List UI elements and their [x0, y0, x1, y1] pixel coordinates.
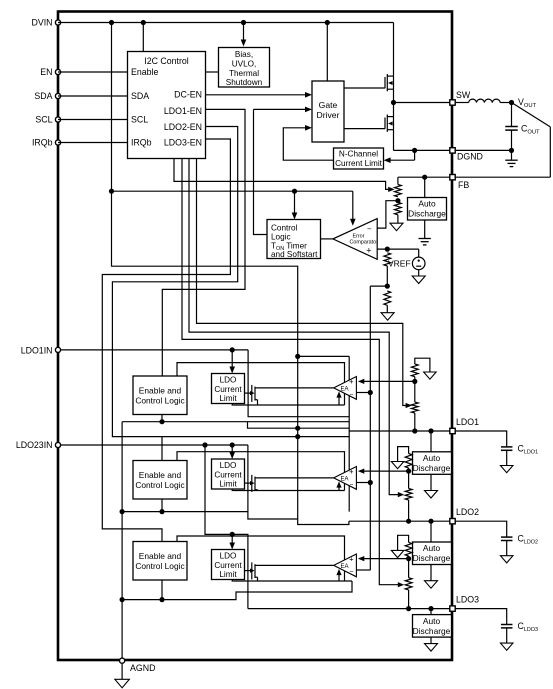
- op-amp EA3: [334, 554, 357, 577]
- inductor L1: [469, 99, 501, 102]
- wire FET2 source: [257, 489, 259, 492]
- transistor pass FET 2: [251, 475, 253, 492]
- pin EN: [55, 69, 60, 74]
- wire DVIN to Bias: [243, 23, 245, 42]
- svg-text:FB: FB: [458, 180, 469, 190]
- pin FB: [450, 175, 455, 180]
- wire DVIN to Gate Driver top: [326, 23, 328, 82]
- wire feedback right side: [549, 127, 551, 177]
- node divider mid LDO3: [406, 556, 411, 561]
- svg-text:DVIN: DVIN: [31, 18, 52, 28]
- node CL feed: [292, 189, 297, 194]
- ground CLDO2: [500, 556, 513, 563]
- wire EA2 enable arrow: [338, 486, 340, 490]
- pin DGND: [450, 148, 455, 153]
- svg-text:Gate: Gate: [319, 100, 338, 110]
- wire VREF distribution rail: [369, 286, 371, 570]
- svg-text:LDO1-EN: LDO1-EN: [164, 106, 202, 116]
- svg-text:Comparator: Comparator: [350, 240, 379, 246]
- op-amp EA1: [334, 377, 357, 400]
- svg-text:LDO3-EN: LDO3-EN: [164, 138, 202, 148]
- wire rail branch LDO2-EN ext: [162, 436, 349, 438]
- svg-text:Enable: Enable: [131, 67, 158, 77]
- wire LDO2 output row: [349, 520, 453, 522]
- wire IRQb: [58, 142, 128, 144]
- wire LDO3-EN: [102, 139, 230, 542]
- wire FB internal: [398, 176, 450, 178]
- wire current limit sense: [414, 150, 416, 160]
- wire Enable to Bias: [206, 71, 219, 73]
- wire DC-EN: [206, 94, 307, 96]
- wire VREF rail start: [370, 285, 387, 287]
- node bus ECL1: [159, 419, 164, 424]
- wire Vset LDO3: [182, 159, 399, 585]
- pin DVIN: [55, 20, 60, 25]
- transistor pass FET 3: [251, 562, 253, 579]
- node current sense: [412, 148, 417, 153]
- block Auto Discharge 3: [430, 609, 432, 615]
- ground AGND: [121, 664, 123, 680]
- capacitor CLDO3: [501, 624, 513, 626]
- svg-text:Logic: Logic: [271, 233, 291, 242]
- ground COUT: [511, 150, 513, 160]
- node FB divider mid: [395, 198, 400, 203]
- wire FET1 source: [257, 400, 259, 405]
- svg-text:Bias,: Bias,: [235, 50, 253, 59]
- svg-text:Discharge: Discharge: [408, 209, 446, 219]
- wire DVIN line: [58, 22, 394, 24]
- pin LDO1: [450, 428, 455, 433]
- pin LDO1IN: [55, 347, 60, 352]
- wire logic line B: [112, 190, 353, 192]
- block Enable and Control Logic 2: [133, 461, 187, 500]
- wire LCL3 sense: [232, 580, 352, 582]
- svg-text:Driver: Driver: [317, 110, 340, 120]
- svg-text:DGND: DGND: [457, 152, 483, 162]
- wire EA3 enable arrow: [338, 574, 340, 581]
- wire FET3 source: [257, 577, 259, 581]
- wire ECL2 enable link: [177, 452, 345, 491]
- ground CLDO3: [500, 643, 513, 650]
- resistor R2 FB bottom: [395, 202, 402, 215]
- svg-text:Control Logic: Control Logic: [135, 396, 184, 406]
- svg-text:UVLO,: UVLO,: [232, 60, 257, 69]
- wire EN: [58, 71, 128, 73]
- node EA2 minus tap: [368, 480, 373, 485]
- svg-text:EA: EA: [341, 477, 349, 483]
- ground VREF source: [418, 270, 420, 276]
- block Auto Discharge 2: [430, 521, 432, 542]
- wire LDO2-EN: [112, 127, 237, 461]
- ground AD2: [430, 565, 432, 581]
- block U5 Auto Discharge FB: [424, 177, 426, 197]
- wire arrow to Control Logic: [294, 191, 296, 214]
- wire ECL1 bottom: [161, 415, 163, 422]
- pin SW: [450, 100, 455, 105]
- wire feedback to FB: [456, 176, 551, 178]
- node row divider 2: [406, 519, 411, 524]
- svg-text:LDO2-EN: LDO2-EN: [164, 122, 202, 132]
- wire EA1 out to FET: [258, 387, 334, 389]
- wire comparator plus to VREF: [377, 248, 419, 250]
- node row divider 3: [406, 606, 411, 611]
- resistor feedback top LDO1: [415, 358, 430, 372]
- wire LCL2 sense: [232, 489, 344, 491]
- block LDO Current Limit 3: [212, 550, 245, 580]
- node supply-LCL1: [230, 347, 235, 352]
- resistor feedback top LDO3: [398, 535, 409, 550]
- block U1 I2C Control: [128, 52, 206, 159]
- resistor feedback bottom LDO2: [405, 489, 412, 501]
- block LDO Current Limit 1: [212, 374, 245, 404]
- node DVIN-j2: [141, 20, 146, 25]
- resistor feedback top LDO2: [398, 447, 409, 462]
- wire LDO1 bias wrap: [298, 355, 350, 357]
- wire LDO3 external: [456, 609, 507, 625]
- node supply-LCL3: [230, 532, 235, 537]
- svg-text:Discharge: Discharge: [413, 463, 451, 473]
- wire DVIN drop to high-side FET: [393, 23, 395, 74]
- svg-text:Auto: Auto: [423, 543, 441, 553]
- svg-text:Auto: Auto: [423, 453, 441, 463]
- wire LDO1 output row: [349, 430, 452, 432]
- node bus ECL2: [159, 509, 164, 514]
- svg-text:SDA: SDA: [34, 91, 52, 101]
- transistor Q2 low-side FET: [384, 118, 386, 129]
- op-amp EA2: [334, 467, 357, 490]
- node LDO23IN branch: [202, 442, 207, 447]
- resistor feedback bottom LDO3: [405, 578, 412, 590]
- wire LDO3 output row: [248, 608, 453, 610]
- wire LDO1 external: [456, 431, 507, 447]
- node COUT bottom: [509, 148, 514, 153]
- svg-text:Shutdown: Shutdown: [226, 78, 263, 87]
- node supply-LCL2: [230, 442, 235, 447]
- wire rail to LDO3 bus: [297, 437, 299, 519]
- block Auto Discharge 1: [430, 431, 432, 452]
- node VOUT: [509, 100, 514, 105]
- op-amp U7 Error Comparator: [333, 219, 377, 260]
- transistor Q1 high-side FET: [384, 77, 386, 88]
- svg-text:LDO2: LDO2: [456, 507, 479, 517]
- svg-text:+: +: [349, 377, 354, 386]
- voltage source VREF reference: [418, 249, 420, 257]
- svg-text:Control Logic: Control Logic: [135, 480, 184, 490]
- block Enable and Control Logic 3: [133, 542, 187, 581]
- svg-text:VREF: VREF: [388, 258, 411, 268]
- wire SCL: [58, 119, 128, 121]
- svg-text:+: +: [366, 246, 371, 256]
- svg-text:LDO3: LDO3: [456, 595, 479, 605]
- wire supply drop 1: [248, 350, 349, 417]
- pin AGND: [120, 658, 125, 663]
- svg-text:EN: EN: [40, 67, 52, 77]
- svg-text:−: −: [367, 225, 372, 234]
- svg-text:Limit: Limit: [219, 394, 237, 403]
- svg-text:Current: Current: [214, 385, 242, 394]
- wire Q2 source to DGND: [394, 149, 453, 151]
- svg-text:AGND: AGND: [130, 663, 155, 673]
- svg-text:+: +: [349, 467, 354, 476]
- svg-text:LDO: LDO: [220, 376, 237, 385]
- svg-text:Discharge: Discharge: [413, 626, 451, 636]
- wire EA3 out to FET: [258, 564, 334, 566]
- pin LDO3: [450, 606, 455, 611]
- svg-text:Current: Current: [214, 471, 242, 480]
- wire LCL1 sense: [232, 404, 344, 406]
- svg-text:I2C Control: I2C Control: [144, 56, 189, 66]
- node FB-AD junction: [422, 175, 427, 180]
- pin SCL: [55, 117, 60, 122]
- capacitor CLDO1: [501, 446, 513, 448]
- resistor R1 FB top: [397, 177, 399, 184]
- wire EA1 plus input: [363, 380, 415, 382]
- wire EA3 plus input: [363, 558, 409, 560]
- svg-text:Thermal: Thermal: [229, 69, 259, 78]
- wire ECL3 bottom: [161, 580, 163, 600]
- resistor R3 VREF string: [384, 253, 391, 266]
- node logic branch: [109, 189, 114, 194]
- svg-text:Auto: Auto: [423, 616, 441, 626]
- svg-text:−: −: [349, 569, 353, 576]
- wire arrow to comparator: [352, 191, 354, 219]
- wire EA2 out to FET: [258, 477, 334, 479]
- resistor feedback bottom LDO1: [411, 402, 418, 413]
- wire left ground rail: [121, 422, 123, 600]
- capacitor COUT: [511, 103, 513, 127]
- wire LDO1-EN: [162, 109, 245, 376]
- svg-text:LDO: LDO: [220, 552, 237, 561]
- svg-text:LDO23IN: LDO23IN: [16, 440, 53, 450]
- svg-text:EA: EA: [341, 387, 349, 393]
- ground AD3: [430, 637, 432, 644]
- svg-text:IRQb: IRQb: [131, 138, 152, 148]
- ground FB divider: [390, 223, 403, 231]
- svg-text:SCL: SCL: [35, 115, 52, 125]
- node rail bus2: [120, 509, 125, 514]
- node bus ECL3: [159, 597, 164, 602]
- svg-text:+: +: [349, 555, 354, 564]
- wire SW: [394, 102, 453, 104]
- wire gate drive low: [344, 128, 385, 130]
- wire gate drive high: [344, 87, 385, 89]
- resistor R4 VREF string lower: [384, 291, 391, 305]
- block U2 Bias UVLO Thermal Shutdown: [219, 48, 270, 88]
- node rail LDO1 bias: [295, 354, 300, 359]
- svg-text:SDA: SDA: [131, 91, 149, 101]
- node rail bus3: [120, 597, 125, 602]
- wire ground bus 1: [122, 421, 349, 423]
- svg-text:Control: Control: [271, 224, 298, 233]
- svg-text:−: −: [349, 482, 353, 489]
- node DVIN-j4: [325, 20, 330, 25]
- wire DVIN internal rail: [112, 23, 298, 437]
- svg-text:SCL: SCL: [131, 115, 148, 125]
- wire FB set arrow: [174, 159, 389, 190]
- node SW junction: [391, 100, 396, 105]
- block LDO Current Limit 2: [212, 459, 245, 489]
- svg-text:and Softstart: and Softstart: [271, 250, 318, 259]
- wire arrow into LCL2: [231, 445, 233, 454]
- svg-text:EA: EA: [341, 564, 349, 570]
- wire DVIN to I2C top: [142, 23, 144, 52]
- wire LDO3 supply: [205, 445, 248, 609]
- pin SDA: [55, 93, 60, 98]
- svg-text:IRQb: IRQb: [32, 138, 53, 148]
- wire ECL1 enable link: [177, 363, 345, 405]
- svg-text:−: −: [349, 392, 353, 399]
- svg-text:Enable and: Enable and: [139, 470, 182, 480]
- node row divider 1: [412, 428, 417, 433]
- svg-text:SW: SW: [456, 90, 471, 100]
- svg-text:Enable and: Enable and: [139, 386, 182, 396]
- wire arrow into LCL1: [231, 350, 233, 368]
- svg-text:LDO1: LDO1: [456, 417, 479, 427]
- svg-text:Limit: Limit: [219, 570, 237, 579]
- pin LDO2: [450, 519, 455, 524]
- wire LDO2 supply in: [58, 444, 248, 446]
- node DVIN-j1: [109, 20, 114, 25]
- ground VREF string: [381, 313, 394, 321]
- wire SDA: [58, 95, 128, 97]
- wire EA2 minus: [356, 482, 370, 484]
- node row AD 2: [428, 519, 433, 524]
- node VREF tap: [385, 247, 390, 252]
- wire EA2 plus input: [363, 470, 409, 472]
- ground CLDO1: [500, 466, 513, 473]
- svg-text:Auto: Auto: [418, 199, 436, 209]
- wire ground bus 2: [122, 511, 248, 513]
- wire NCL to Gate Driver: [283, 128, 333, 160]
- wire Control Logic left link: [254, 109, 268, 234]
- wire LDO1 supply in: [58, 349, 248, 351]
- node DVIN-j3: [241, 20, 246, 25]
- svg-text:DC-EN: DC-EN: [174, 90, 202, 100]
- node row AD 3: [428, 606, 433, 611]
- svg-text:Limit: Limit: [219, 480, 237, 489]
- wire ECL2 bottom: [161, 499, 163, 512]
- wire ECL3 enable link: [177, 536, 345, 581]
- svg-text:Discharge: Discharge: [413, 553, 451, 563]
- wire comparator out to Control Logic: [321, 238, 333, 240]
- outer IC boundary: [58, 12, 452, 661]
- transistor pass FET 1: [251, 385, 253, 402]
- block U3 Gate Driver: [312, 81, 344, 142]
- svg-text:Current: Current: [214, 561, 242, 570]
- wire DGND to COUT: [456, 149, 512, 151]
- node divider mid LDO2: [406, 469, 411, 474]
- svg-text:Enable and: Enable and: [139, 551, 182, 561]
- wire EA1 enable arrow: [338, 396, 340, 405]
- ground AD-FB: [424, 220, 426, 239]
- node VREF string mid: [385, 284, 390, 289]
- svg-text:Control Logic: Control Logic: [135, 561, 184, 571]
- svg-text:Current Limit: Current Limit: [335, 159, 383, 168]
- wire EA1 minus: [356, 392, 370, 394]
- block U4 N-Channel Current Limit: [334, 148, 384, 169]
- node divider mid LDO1: [412, 379, 417, 384]
- wire L to VOUT: [500, 102, 511, 104]
- node EA1 minus tap: [368, 390, 373, 395]
- wire EA wrap vertical: [348, 356, 350, 511]
- svg-text:LDO: LDO: [220, 461, 237, 470]
- wire AGND drop: [121, 600, 123, 661]
- pin LDO23IN: [55, 442, 60, 447]
- svg-text:LDO1IN: LDO1IN: [21, 346, 53, 356]
- block Enable and Control Logic 1: [133, 376, 187, 415]
- wire FB tap to comparator minus: [377, 201, 398, 228]
- block U6 Control Logic Ton Timer and Softstart: [267, 220, 321, 259]
- pin IRQb: [55, 140, 60, 145]
- svg-text:N-Channel: N-Channel: [339, 150, 378, 159]
- capacitor CLDO2: [501, 536, 513, 538]
- ground AD1: [430, 474, 432, 490]
- wire ground bus 3: [122, 581, 352, 600]
- wire EA3 minus: [356, 569, 370, 571]
- wire SW to L: [456, 102, 469, 104]
- wire Vset LDO2: [189, 159, 399, 495]
- wire LDO2 external: [456, 521, 507, 537]
- node row AD 1: [428, 428, 433, 433]
- wire Vset LDO1: [197, 159, 407, 406]
- wire supply drop 2: [248, 445, 349, 525]
- wire VOUT feedback diagonal: [512, 103, 551, 127]
- wire arrow into LCL3: [231, 534, 233, 544]
